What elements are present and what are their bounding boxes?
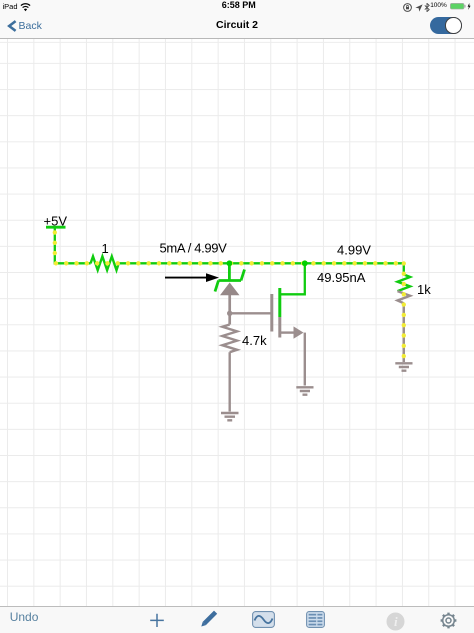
svg-text:5mA / 4.99V: 5mA / 4.99V [160, 241, 228, 256]
svg-text:1: 1 [102, 241, 109, 256]
svg-text:49.95nA: 49.95nA [317, 270, 366, 285]
svg-text:i: i [394, 614, 398, 629]
svg-text:1k: 1k [417, 282, 431, 297]
svg-text:4.7k: 4.7k [242, 333, 267, 348]
svg-text:+5V: +5V [44, 214, 68, 229]
svg-text:4.99V: 4.99V [337, 243, 371, 258]
